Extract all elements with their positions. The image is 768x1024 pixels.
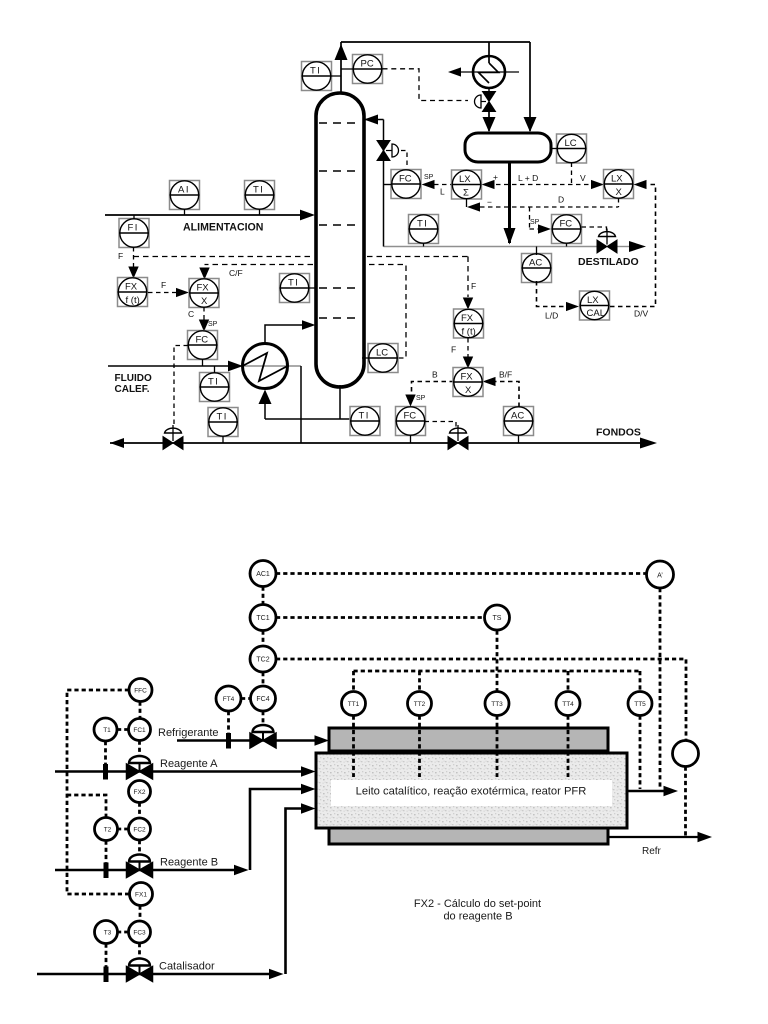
wire Reagente A line bbox=[55, 766, 316, 776]
wire TS to TT3 drop bbox=[496, 631, 499, 692]
wire overhead vapor top line bbox=[341, 41, 530, 43]
wire top line to drum bbox=[524, 42, 537, 132]
wire SP to distillate FC bbox=[530, 207, 552, 234]
svg-text:FC: FC bbox=[404, 411, 417, 422]
instrument TI bottoms right bbox=[350, 407, 380, 436]
svg-text:CAL: CAL bbox=[587, 308, 605, 319]
reactor PFR body bbox=[316, 753, 627, 828]
wire AC1 to A' bus bbox=[276, 572, 646, 575]
reboiler E2 bbox=[243, 344, 288, 389]
wire FT3 to orifice bbox=[105, 944, 108, 968]
wire Reagente B line bbox=[55, 784, 316, 875]
svg-text:TT2: TT2 bbox=[414, 701, 426, 708]
column tray 1 bbox=[319, 122, 361, 124]
instrument FC fondos bbox=[396, 407, 426, 444]
instrument FT1 bbox=[94, 718, 117, 741]
instrument TI bottoms left bbox=[208, 408, 238, 444]
svg-text:L + D: L + D bbox=[518, 173, 538, 183]
instrument TT4 bbox=[556, 692, 580, 716]
instrument TT2 bbox=[408, 692, 432, 716]
svg-text:TI: TI bbox=[288, 278, 299, 289]
reactor cooling jacket bottom bar bbox=[329, 826, 608, 844]
wire feed line ALIMENTACION bbox=[105, 210, 315, 221]
svg-text:L/D: L/D bbox=[545, 311, 558, 321]
svg-text:TT5: TT5 bbox=[634, 701, 646, 708]
wire AC stem bbox=[536, 247, 538, 256]
instrument LX sum bbox=[452, 170, 482, 199]
svg-text:TI: TI bbox=[217, 412, 228, 423]
wire PC output signal to condenser valve bbox=[383, 69, 469, 101]
wire reboiler riser from bottoms bbox=[259, 390, 272, 420]
svg-text:TT3: TT3 bbox=[491, 701, 503, 708]
wire FT1-FC1 bbox=[117, 728, 129, 731]
wire jacket sensor to Refr line bbox=[684, 767, 687, 837]
svg-text:X: X bbox=[616, 187, 623, 198]
column C1 shell bbox=[316, 93, 364, 387]
svg-text:LC: LC bbox=[376, 348, 388, 359]
reflux drum D1 bbox=[465, 133, 551, 162]
svg-text:LX: LX bbox=[611, 174, 623, 185]
instrument TS selector bbox=[485, 605, 510, 630]
wire FC to destilado valve bbox=[582, 227, 607, 232]
svg-text:FC4: FC4 bbox=[256, 696, 269, 703]
instrument AC distillate bbox=[522, 254, 552, 283]
svg-text:X: X bbox=[465, 385, 472, 396]
svg-text:FX: FX bbox=[125, 282, 138, 293]
wire FT3-FC3 bbox=[117, 931, 129, 934]
instrument FX f(t) right bbox=[454, 309, 484, 338]
instrument FX X left bbox=[189, 279, 219, 308]
instrument LX CAL bbox=[580, 291, 610, 320]
instrument jacket temp sensor bbox=[673, 741, 699, 767]
instrument TT3 bbox=[485, 692, 509, 716]
svg-text:AC: AC bbox=[529, 258, 542, 269]
wire distillate line after valve bbox=[616, 246, 631, 248]
wire LC column link bbox=[362, 357, 368, 359]
instrument AI feed bbox=[170, 181, 200, 216]
wire TT5 drop to bus bbox=[639, 671, 642, 692]
svg-text:TI: TI bbox=[253, 185, 264, 196]
svg-text:LX: LX bbox=[587, 295, 599, 306]
svg-text:f (t): f (t) bbox=[126, 295, 140, 306]
wire FC4 to refrigerante valve bbox=[262, 711, 265, 726]
wire vapor riser from column top bbox=[335, 42, 348, 95]
valve V4 fluido return bbox=[163, 425, 183, 450]
instrument FT2 bbox=[95, 818, 118, 841]
wire B/F from AC to FX X right bbox=[483, 377, 520, 407]
instrument FI feed bbox=[119, 215, 149, 248]
instrument FC4 bbox=[251, 686, 276, 711]
wire FT4 to orifice bbox=[227, 711, 230, 734]
svg-text:do reagente B: do reagente B bbox=[443, 911, 512, 923]
wire AC to LX CAL (L/D) bbox=[537, 281, 580, 311]
svg-text:F: F bbox=[118, 251, 123, 261]
instrument FC reflux bbox=[391, 170, 421, 199]
instrument TI feed bbox=[245, 181, 275, 216]
instrument FC2 bbox=[129, 818, 151, 840]
reactor label band bbox=[331, 780, 612, 806]
svg-text:LC: LC bbox=[565, 138, 577, 149]
svg-text:F: F bbox=[451, 345, 456, 355]
wire AC1-TC1 cascade bbox=[262, 587, 265, 605]
svg-text:TI: TI bbox=[208, 377, 219, 388]
valve refrigerante bbox=[250, 725, 276, 748]
node FT2 orifice tick bbox=[104, 863, 109, 879]
svg-text:F: F bbox=[161, 280, 166, 290]
wire D/V signal bbox=[610, 180, 656, 307]
svg-text:PC: PC bbox=[361, 59, 374, 70]
svg-text:FX2 - Cálculo do set-point: FX2 - Cálculo do set-point bbox=[414, 898, 541, 910]
instrument TT1 bbox=[342, 692, 366, 716]
instrument PC bbox=[353, 55, 383, 84]
svg-text:D: D bbox=[558, 195, 564, 205]
svg-text:B/F: B/F bbox=[499, 370, 512, 380]
svg-text:A’: A’ bbox=[657, 573, 663, 580]
instrument AC fondos bbox=[504, 407, 534, 444]
wire B setpoint into FC fondos bbox=[405, 382, 454, 407]
column tray 2 bbox=[319, 170, 361, 172]
wire TT5 probe to outlet line bbox=[639, 716, 642, 790]
wire FX1-FC3 bbox=[139, 906, 142, 922]
svg-text:ALIMENTACION: ALIMENTACION bbox=[183, 222, 263, 234]
wire TT bus bbox=[354, 670, 641, 673]
svg-text:FX1: FX1 bbox=[135, 892, 147, 899]
instrument TI distillate bbox=[409, 215, 439, 244]
instrument TI overhead bbox=[302, 62, 332, 91]
wire D signal line bbox=[467, 198, 619, 212]
wire FC fondos to valve bbox=[425, 422, 457, 428]
wire FC stem bbox=[566, 243, 568, 247]
svg-text:Reagente A: Reagente A bbox=[160, 758, 218, 770]
svg-text:Leito catalítico, reação exoté: Leito catalítico, reação exotérmica, rea… bbox=[356, 786, 587, 798]
svg-text:FX: FX bbox=[461, 372, 474, 383]
wire FT2 to orifice bbox=[105, 841, 108, 864]
svg-text:F: F bbox=[471, 281, 476, 291]
svg-text:TT4: TT4 bbox=[562, 701, 574, 708]
wire FC2 to valve bbox=[138, 840, 141, 854]
wire TI stem bbox=[423, 243, 425, 247]
wire LC signal down bbox=[571, 163, 573, 185]
instrument AC1 bbox=[250, 561, 276, 587]
svg-text:DESTILADO: DESTILADO bbox=[578, 256, 639, 268]
wire Refrigerante line bbox=[177, 735, 329, 745]
svg-text:TI: TI bbox=[310, 66, 321, 77]
svg-text:FC: FC bbox=[560, 219, 573, 230]
svg-text:+: + bbox=[493, 172, 498, 182]
wire bottoms product line bbox=[110, 438, 657, 449]
svg-text:FC: FC bbox=[399, 174, 412, 185]
valve V3 reflux bbox=[377, 141, 407, 169]
wire FFC-FC1 bbox=[139, 702, 142, 720]
instrument FC1 bbox=[129, 719, 151, 741]
wire condenser coolant outlet arrow bbox=[448, 67, 461, 76]
wire FT1 to orifice bbox=[104, 741, 107, 764]
node arrow into LX sum bbox=[482, 180, 495, 189]
wire C signal FX X to FC bbox=[199, 307, 209, 332]
wire TT4 probe into bed bbox=[567, 716, 570, 778]
instrument TI column bbox=[280, 274, 310, 303]
svg-text:TT1: TT1 bbox=[348, 701, 360, 708]
node DESTILADO arrow bbox=[629, 241, 646, 252]
svg-text:Refr: Refr bbox=[642, 846, 662, 857]
wire FT2-FC2 bbox=[117, 828, 129, 831]
valve V1 under condenser bbox=[475, 88, 496, 112]
wire bottoms transfer line bbox=[265, 418, 350, 420]
wire TI to riser bbox=[332, 75, 342, 77]
svg-text:FLUIDO: FLUIDO bbox=[115, 373, 152, 384]
instrument FX X right bbox=[453, 368, 483, 397]
wire FX2-FC2 bbox=[138, 803, 141, 819]
wire reflux riser bbox=[364, 115, 384, 247]
svg-text:TI: TI bbox=[359, 411, 370, 422]
wire distillate line bbox=[384, 246, 599, 248]
instrument TI fluido bbox=[200, 366, 230, 402]
svg-text:B: B bbox=[432, 370, 438, 380]
svg-text:SP: SP bbox=[416, 395, 426, 402]
instrument TC2 bbox=[250, 646, 276, 672]
wire product outlet bbox=[627, 786, 678, 796]
svg-text:FX: FX bbox=[197, 283, 210, 294]
wire PC to riser bbox=[341, 68, 353, 70]
wire FFC left loop bbox=[67, 690, 130, 894]
wire FC3 to valve bbox=[138, 943, 141, 958]
wire FC1 to valve bbox=[138, 741, 141, 756]
svg-text:AC: AC bbox=[511, 411, 524, 422]
instrument A' analyzer bbox=[647, 561, 674, 588]
svg-text:Refrigerante: Refrigerante bbox=[158, 727, 219, 739]
wire fluido calef supply line bbox=[108, 361, 301, 372]
valve reagente A bbox=[127, 756, 153, 779]
wire FT2 branch bbox=[67, 795, 106, 817]
svg-text:AI: AI bbox=[178, 185, 190, 196]
svg-text:Catalisador: Catalisador bbox=[159, 961, 215, 973]
wire TT3 probe into bed bbox=[496, 716, 499, 778]
wire column bottom downcomer bbox=[339, 385, 341, 419]
svg-text:SP: SP bbox=[424, 174, 434, 181]
wire SP from LX sum to FC bbox=[422, 180, 452, 189]
svg-text:FC1: FC1 bbox=[133, 727, 146, 734]
node FT1 orifice tick bbox=[103, 764, 108, 780]
instrument TC1 bbox=[250, 605, 276, 631]
svg-text:X: X bbox=[201, 296, 208, 307]
node FT3 orifice tick bbox=[104, 967, 109, 983]
wire TC1 to TS bus bbox=[276, 616, 484, 619]
wire FI signal down bbox=[128, 247, 138, 279]
wire C/F signal from LC to FX X bbox=[199, 265, 406, 359]
valve V2 destilado bbox=[597, 229, 617, 254]
svg-text:FONDOS: FONDOS bbox=[596, 427, 641, 439]
instrument FT4 bbox=[216, 686, 241, 711]
wire FT4-FC4 bbox=[241, 697, 251, 700]
instrument FX2 bbox=[129, 781, 151, 803]
wire vapor return to column bbox=[265, 320, 316, 343]
svg-text:−: − bbox=[487, 197, 492, 207]
svg-text:D/V: D/V bbox=[634, 309, 649, 319]
svg-text:FFC: FFC bbox=[134, 688, 147, 695]
instrument FFC bbox=[129, 679, 152, 702]
svg-text:FI: FI bbox=[128, 223, 139, 234]
wire TT1 probe into bed bbox=[352, 716, 355, 778]
label FLUIDO CALEF bbox=[115, 373, 152, 395]
svg-text:FX2: FX2 bbox=[134, 789, 146, 796]
svg-text:Σ: Σ bbox=[463, 188, 469, 199]
wire TT2 probe into bed bbox=[418, 716, 421, 778]
wire F signal bus to right FX bbox=[134, 257, 474, 310]
instrument LC drum bbox=[557, 134, 587, 163]
wire condenser to drum bbox=[483, 108, 496, 132]
wire FC fluido to return valve bbox=[174, 346, 188, 429]
wire TI column link bbox=[310, 287, 317, 289]
wire condenser inlet drop bbox=[488, 42, 490, 63]
svg-text:CALEF.: CALEF. bbox=[115, 384, 150, 395]
wire Refr outlet bbox=[608, 832, 712, 842]
wire TT4 drop to bus bbox=[567, 671, 570, 692]
svg-text:T2: T2 bbox=[104, 827, 112, 834]
svg-text:L: L bbox=[440, 187, 445, 197]
wire FC reflux stub bbox=[384, 184, 392, 186]
svg-text:LX: LX bbox=[459, 174, 471, 185]
wire TT2 drop to bus bbox=[418, 671, 421, 692]
svg-text:V: V bbox=[580, 173, 586, 183]
wire A' probe to outlet line bbox=[659, 588, 662, 789]
instrument FC distillate bbox=[552, 215, 582, 244]
wire TC2-FC4 cascade bbox=[262, 672, 265, 686]
instrument FC3 bbox=[129, 921, 151, 943]
wire drum to LC bbox=[551, 148, 557, 150]
svg-text:TC1: TC1 bbox=[256, 615, 269, 622]
svg-text:T3: T3 bbox=[104, 930, 112, 937]
svg-text:TI: TI bbox=[417, 219, 428, 230]
node FT4 orifice tick bbox=[226, 733, 231, 749]
svg-text:C/F: C/F bbox=[229, 268, 243, 278]
svg-text:FC2: FC2 bbox=[133, 827, 146, 834]
condenser E1 bbox=[459, 56, 519, 88]
svg-text:AC1: AC1 bbox=[256, 571, 270, 578]
svg-text:FC3: FC3 bbox=[133, 930, 146, 937]
wire TC1-TC2 cascade bbox=[262, 631, 265, 647]
column tray 3 bbox=[319, 224, 361, 226]
svg-text:FX: FX bbox=[461, 313, 474, 324]
wire Catalisador line bbox=[37, 803, 316, 979]
wire fluido outlet to bottoms line bbox=[300, 366, 302, 443]
instrument TT5 bbox=[628, 692, 652, 716]
valve V5 fondos bbox=[448, 425, 468, 450]
valve catalisador bbox=[127, 959, 153, 982]
svg-text:FT4: FT4 bbox=[223, 696, 235, 703]
svg-text:T1: T1 bbox=[103, 727, 111, 734]
column tray 4 bbox=[319, 287, 361, 289]
wire FX ft to FX X right bbox=[463, 338, 473, 369]
instrument FT3 bbox=[95, 921, 118, 944]
column tray 5 bbox=[319, 317, 361, 319]
instrument FC fluido calef bbox=[188, 331, 218, 367]
svg-text:TC2: TC2 bbox=[256, 657, 269, 664]
wire FX ft to FX X left bbox=[148, 288, 189, 297]
svg-text:C: C bbox=[188, 309, 194, 319]
wire TC2 bus to jacket sensor bbox=[276, 659, 686, 740]
svg-text:FC: FC bbox=[196, 335, 209, 346]
wire TT1 drop to bus bbox=[352, 671, 355, 692]
instrument FX f(t) left bbox=[118, 278, 148, 307]
svg-text:Reagente B: Reagente B bbox=[160, 857, 218, 869]
svg-text:f (t): f (t) bbox=[462, 327, 476, 338]
instrument LC column bbox=[368, 344, 398, 373]
wire drum outlet downcomer bbox=[504, 162, 516, 245]
svg-text:TS: TS bbox=[493, 615, 502, 622]
reactor cooling jacket top bar bbox=[329, 728, 608, 751]
svg-text:SP: SP bbox=[530, 219, 540, 226]
node arrow into LX X bbox=[591, 180, 604, 189]
valve reagente B bbox=[127, 855, 153, 878]
wire L+D signal bus bbox=[496, 184, 592, 186]
instrument FX1 bbox=[130, 883, 153, 906]
instrument LX X bbox=[604, 170, 634, 199]
svg-text:SP: SP bbox=[208, 321, 218, 328]
